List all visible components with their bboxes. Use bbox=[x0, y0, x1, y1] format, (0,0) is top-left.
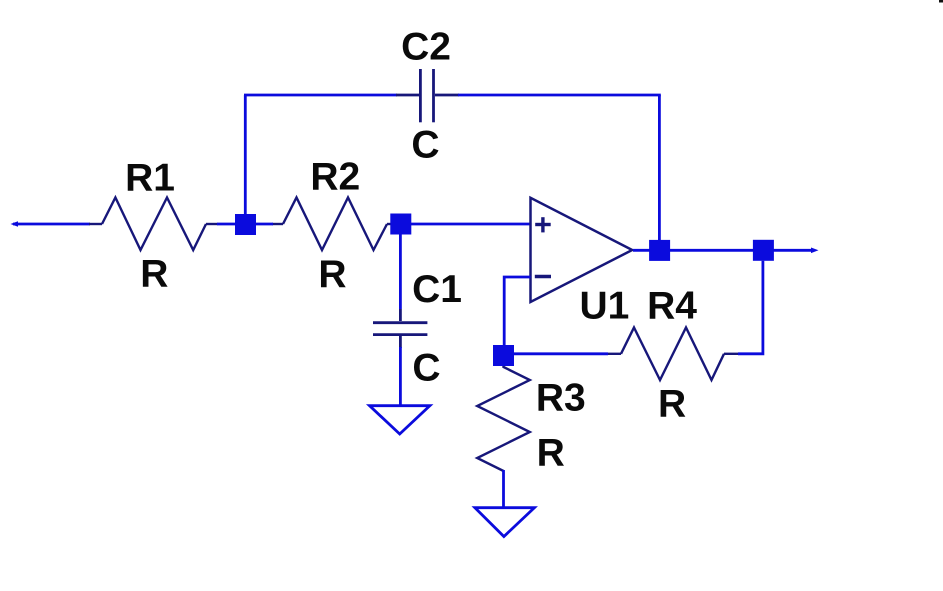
op-amp U1 bbox=[531, 198, 633, 302]
svg-text:C2: C2 bbox=[401, 26, 451, 69]
wire node A to R2 bbox=[256, 223, 273, 226]
resistor R1 bbox=[89, 198, 218, 251]
wire node D up to op-amp minus input bbox=[504, 277, 530, 346]
resistor R2 bbox=[272, 198, 392, 251]
wire node A up to C2 row bbox=[244, 95, 247, 225]
wire node D to R4 bbox=[514, 352, 608, 355]
svg-text:R1: R1 bbox=[125, 157, 175, 200]
svg-text:R4: R4 bbox=[647, 285, 697, 328]
node C junction bbox=[753, 240, 774, 261]
svg-text:U1: U1 bbox=[579, 285, 629, 328]
svg-text:C: C bbox=[411, 123, 439, 166]
capacitor C2 bbox=[396, 69, 459, 122]
svg-text:R: R bbox=[140, 252, 168, 295]
wire C1 to ground bbox=[399, 347, 402, 406]
wire node C to output tip bbox=[773, 249, 813, 252]
resistor R4 bbox=[607, 328, 738, 381]
svg-text:R: R bbox=[658, 382, 686, 425]
node D junction bbox=[493, 345, 514, 366]
wire input segment bbox=[13, 223, 90, 226]
wire C2 row right run bbox=[458, 94, 661, 97]
wire C2 row left run bbox=[244, 94, 397, 97]
svg-text:R: R bbox=[537, 432, 565, 475]
svg-text:R2: R2 bbox=[310, 155, 360, 198]
svg-text:R3: R3 bbox=[536, 376, 586, 419]
node B junction bbox=[390, 214, 411, 235]
wire output node to node C bbox=[670, 249, 755, 252]
resistor R3 bbox=[477, 366, 530, 471]
svg-text:C: C bbox=[412, 346, 440, 389]
node A junction bbox=[235, 214, 256, 235]
wire node C down to feedback row bbox=[738, 261, 763, 354]
corner artifact mark bbox=[939, 0, 943, 3]
wire R3 to ground bbox=[502, 470, 505, 508]
wire output tip bbox=[811, 248, 819, 254]
svg-text:C1: C1 bbox=[412, 268, 462, 311]
capacitor C1 bbox=[373, 309, 427, 348]
wire input tip bbox=[11, 221, 19, 227]
wire op-amp output to output node bbox=[633, 249, 652, 252]
output node junction bbox=[649, 240, 670, 261]
svg-text:R: R bbox=[318, 253, 346, 296]
wire R1 to node A bbox=[217, 223, 240, 226]
ground under C1 bbox=[370, 406, 430, 434]
wire C2 down to output node bbox=[658, 95, 661, 243]
ground under R3 bbox=[475, 508, 535, 537]
wire node B down to C1 bbox=[399, 225, 402, 309]
wire node B to op-amp plus input bbox=[411, 223, 531, 226]
